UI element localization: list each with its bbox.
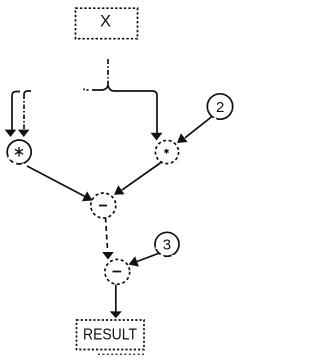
svg-text:3: 3	[163, 237, 171, 254]
svg-text:2: 2	[216, 99, 224, 116]
svg-text:RESULT: RESULT	[83, 327, 137, 344]
svg-text:X: X	[100, 13, 111, 31]
